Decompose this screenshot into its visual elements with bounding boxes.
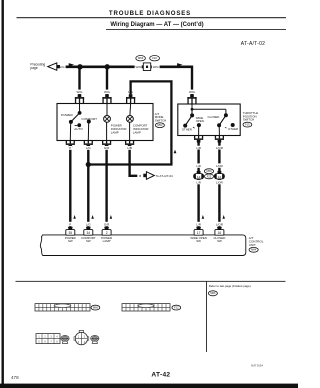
tps closed-side node	[224, 113, 228, 117]
svg-text:SWITCH: SWITCH	[243, 118, 254, 122]
next page arrow symbol	[143, 172, 154, 180]
terminal 16 CLOSED SW	[215, 227, 224, 235]
svg-text:OTHER: OTHER	[182, 128, 192, 132]
OTHER contact right	[225, 123, 235, 128]
tps closed-side feed	[225, 109, 227, 115]
terminal 34 COMFORT SW	[84, 227, 93, 235]
wire label G/R above strip	[102, 222, 111, 227]
flow arrow up wire 2	[91, 215, 94, 219]
wire COMFORT contact to pin	[87, 122, 89, 141]
label CLOSED	[208, 115, 220, 119]
wire comfort lamp to pin	[129, 122, 131, 140]
COMFORT contact	[87, 120, 91, 124]
A/T mode switch box	[57, 104, 153, 141]
footer separator rule	[16, 280, 286, 283]
terminal pin1 top of A/T mode switch	[75, 94, 84, 103]
junction node on L/G wire	[86, 162, 91, 167]
label POWER	[61, 113, 73, 117]
wire L/R to control unit	[197, 142, 199, 230]
label POWER SW	[65, 236, 76, 243]
label AUTO	[74, 127, 83, 131]
label COMFORT SW	[81, 236, 96, 243]
junction node B	[105, 64, 110, 69]
svg-text:B: B	[139, 174, 141, 178]
terminal 35 POWER SW	[66, 227, 75, 235]
svg-text:16: 16	[218, 231, 222, 235]
tps bridge tee node	[191, 108, 194, 111]
svg-text:G/R: G/R	[104, 222, 110, 226]
svg-text:OTHER: OTHER	[228, 127, 238, 131]
svg-text:G/R: G/R	[104, 146, 110, 150]
svg-text:MAT269A: MAT269A	[251, 363, 263, 367]
connector oval M64	[249, 247, 258, 252]
svg-text:W/G: W/G	[58, 65, 65, 69]
label POWER INDICATOR LAMP	[111, 124, 127, 135]
wire label L/OR above strip	[214, 222, 224, 227]
wire label W/G right of connector	[152, 65, 160, 69]
harness view icon 1	[61, 336, 69, 344]
svg-text:12: 12	[197, 175, 201, 179]
terminal pin6 bottom A/T mode switch	[102, 140, 111, 148]
svg-text:F22: F22	[152, 56, 157, 60]
wire label W/G tps pin	[188, 90, 197, 95]
terminal bottom tps wide open	[194, 135, 203, 143]
terminal top of throttle position switch	[187, 94, 196, 103]
connector face view F22	[122, 304, 170, 311]
wire label W/G pin2	[103, 90, 112, 95]
svg-text:M66: M66	[138, 56, 144, 60]
wire color label P	[69, 146, 72, 150]
inline connector ovals M66 F22	[136, 56, 160, 61]
wire W/G bus	[66, 66, 192, 69]
label OTHER left	[182, 128, 192, 132]
svg-text:SW: SW	[68, 239, 73, 243]
svg-text:SW: SW	[86, 239, 91, 243]
svg-text:UNIT: UNIT	[249, 243, 256, 247]
flow arrow on bus right	[177, 63, 183, 66]
inline connector on bus	[142, 63, 153, 71]
svg-text:W/G: W/G	[104, 90, 111, 94]
svg-text:L/G: L/G	[86, 146, 92, 150]
wire color label L/G	[84, 146, 92, 150]
svg-text:L/OR: L/OR	[216, 222, 224, 226]
inline connector 12	[193, 171, 204, 182]
svg-text:LAMP: LAMP	[133, 130, 141, 134]
label A/T MODE SWITCH	[155, 112, 166, 123]
svg-text:COMFORT: COMFORT	[81, 117, 97, 121]
svg-text:SWITCH: SWITCH	[155, 119, 166, 123]
svg-text:478: 478	[11, 375, 19, 380]
svg-text:L/OR: L/OR	[216, 146, 224, 150]
wire L/OR to control unit	[218, 142, 220, 230]
note connector oval M66	[208, 291, 217, 296]
tps common node wide-open side	[190, 113, 194, 117]
wire label W/G left of connector	[135, 65, 143, 69]
terminal 2 POWER LAMP	[102, 227, 111, 235]
svg-text:L/B: L/B	[127, 146, 132, 150]
svg-text:W/G: W/G	[136, 65, 143, 69]
page left margin bar	[2, 0, 4, 388]
svg-text:SW: SW	[196, 239, 201, 243]
switch common node	[78, 111, 82, 115]
svg-text:Wiring Diagram — AT — (Cont’d): Wiring Diagram — AT — (Cont’d)	[110, 22, 203, 28]
wire label L/R above strip	[194, 222, 203, 227]
svg-text:13: 13	[218, 175, 222, 179]
wire drop to A/T mode switch pin 1	[78, 67, 80, 95]
wire wide-open contact to pin	[198, 125, 200, 135]
wire label L/OR above connector	[214, 163, 224, 168]
OTHER contact left	[183, 124, 194, 129]
tps arm closed side	[219, 115, 226, 125]
svg-text:TROUBLE DIAGNOSES: TROUBLE DIAGNOSES	[109, 10, 191, 17]
wire loop feeding comfort lamp	[88, 81, 171, 164]
wire L/B to next page	[130, 147, 138, 176]
svg-text:AT-A/T-02: AT-A/T-02	[241, 41, 265, 47]
flow arrow up wire 1	[73, 215, 76, 219]
wire label W/G at feed	[58, 65, 65, 69]
wire G/R to control unit	[105, 147, 107, 230]
wire POWER contact to pin	[69, 122, 71, 141]
svg-text:P: P	[69, 222, 71, 226]
wire label P above strip	[68, 222, 73, 227]
svg-text:34: 34	[87, 231, 91, 235]
flow arrow up wire 5	[222, 215, 225, 219]
flow arrow up wire 3	[110, 215, 113, 219]
label COMFORT	[81, 117, 97, 121]
label POWER LAMP	[101, 236, 112, 243]
CLOSED contact	[217, 123, 221, 127]
label To AT-A/T-04	[156, 174, 173, 178]
note refer to last page	[209, 284, 252, 288]
tps arm wide-open side	[185, 115, 192, 125]
harness view icon 2	[91, 336, 99, 344]
power indicator lamp	[104, 116, 111, 123]
wire label L/G above strip	[84, 222, 93, 227]
wire power lamp to pin	[106, 122, 108, 140]
svg-text:OPEN: OPEN	[196, 119, 204, 123]
figure code MAT269A	[251, 363, 263, 367]
svg-text:2: 2	[106, 231, 108, 235]
terminal pin5 bottom A/T mode switch	[84, 140, 93, 148]
terminal bottom tps closed	[215, 135, 224, 143]
label CLOSED SW	[213, 236, 225, 243]
A/T control unit strip	[40, 235, 246, 256]
wire L/G to control unit	[87, 147, 89, 230]
header rule 1	[17, 17, 287, 18]
tps bridge wire	[192, 108, 226, 110]
wire color label L/B	[126, 146, 134, 150]
svg-text:L/G: L/G	[86, 222, 92, 226]
svg-text:L/OR: L/OR	[216, 164, 223, 168]
wire label L/OR below connector	[214, 180, 224, 185]
junction node A	[77, 64, 82, 69]
connector face oval label M66	[91, 305, 100, 310]
wire label L/G pin3	[126, 90, 135, 95]
svg-text:M52: M52	[157, 123, 163, 127]
svg-text:P: P	[69, 146, 71, 150]
switch arm to POWER	[71, 113, 80, 122]
svg-text:LAMP: LAMP	[103, 239, 111, 243]
terminal 17 WIDE OPEN SW	[194, 227, 203, 235]
svg-text:W/G: W/G	[189, 90, 196, 94]
connector oval M52	[155, 123, 164, 128]
POWER contact	[69, 120, 73, 124]
flow arrow up wire 4	[202, 215, 205, 219]
svg-text:L/R: L/R	[196, 180, 201, 184]
page bottom bar	[0, 384, 298, 388]
svg-text:AUTO: AUTO	[74, 127, 83, 131]
terminal pin2 top of A/T mode switch	[102, 94, 111, 103]
wire color label L/OR below tps	[215, 146, 225, 150]
label WIDE OPEN SW	[190, 236, 207, 243]
svg-text:M66: M66	[206, 169, 212, 173]
wire P to control unit	[69, 147, 71, 230]
terminal pin3 top of A/T mode switch	[126, 94, 135, 103]
wire color label B at arrow	[139, 174, 141, 178]
svg-text:L/R: L/R	[196, 164, 201, 168]
terminal pin7 bottom A/T mode switch	[125, 140, 134, 148]
flow arrow on bus left	[69, 63, 75, 66]
svg-text:17: 17	[197, 231, 201, 235]
svg-text:CLOSED: CLOSED	[208, 115, 220, 119]
switch common stub	[79, 104, 81, 113]
tps stub to bridge tee	[191, 104, 193, 115]
svg-text:F15: F15	[245, 123, 250, 127]
wire color label L/R below tps	[195, 146, 203, 150]
connector ovals M66 F22 mid	[204, 169, 213, 179]
svg-text:To AT-A/T-04: To AT-A/T-04	[156, 174, 173, 178]
wire color label G/R	[103, 146, 111, 150]
svg-text:Refer to last page (Foldout pa: Refer to last page (Foldout page).	[209, 284, 252, 288]
svg-text:M64: M64	[251, 248, 257, 252]
svg-text:SW: SW	[217, 239, 222, 243]
footer divider vertical	[205, 281, 208, 352]
connector oval F15	[243, 122, 252, 127]
svg-text:W/G: W/G	[77, 90, 84, 94]
svg-text:W/G: W/G	[153, 65, 160, 69]
label WIDE OPEN	[196, 116, 204, 123]
wire pin3 to comfort lamp	[129, 104, 132, 116]
svg-text:page: page	[30, 66, 38, 70]
AUTO contact	[75, 123, 82, 127]
WIDE OPEN contact	[197, 123, 201, 127]
svg-text:L/OR: L/OR	[216, 180, 223, 184]
comfort indicator lamp	[126, 116, 133, 123]
A/T mode switch connector face	[36, 334, 60, 344]
throttle position switch box	[178, 104, 240, 136]
page number 478	[11, 375, 19, 380]
preceding page note	[30, 63, 45, 71]
svg-text:35: 35	[69, 231, 73, 235]
label COMFORT INDICATOR LAMP	[133, 124, 149, 135]
wire pin2 to power lamp	[106, 104, 108, 116]
label THROTTLE POSITION SWITCH	[243, 111, 258, 122]
svg-text:F22: F22	[174, 306, 179, 310]
svg-text:AT-42: AT-42	[151, 372, 170, 379]
preceding page arrow symbol	[48, 63, 60, 70]
wire drop to throttle position switch	[191, 66, 193, 95]
svg-text:LAMP: LAMP	[111, 130, 119, 134]
connector face view M66	[35, 304, 90, 311]
wire closed contact to pin	[218, 125, 220, 135]
inline connector 13	[214, 171, 225, 182]
label A/T CONTROL UNIT	[249, 236, 264, 247]
header title TROUBLE DIAGNOSES	[109, 10, 191, 17]
throttle position switch connector face	[74, 331, 89, 345]
wire label W/G pin1	[75, 90, 84, 95]
svg-text:M66: M66	[93, 306, 99, 310]
label OTHER right	[228, 127, 238, 131]
svg-text:F22: F22	[207, 174, 212, 178]
connector face oval label F22	[172, 305, 181, 310]
svg-text:POWER: POWER	[61, 113, 73, 117]
page code AT-42	[151, 372, 170, 379]
header rule 2	[106, 28, 286, 31]
svg-text:M66: M66	[210, 291, 216, 295]
wire drop to A/T mode switch pin 2	[106, 67, 108, 95]
flow arrow up on loop wire	[174, 150, 177, 154]
wire label L/R above connector	[194, 163, 203, 168]
header subtitle Wiring Diagram AT Contd	[110, 22, 203, 28]
diagram code AT-A/T-02	[241, 41, 265, 47]
wire label L/R below connector	[194, 180, 203, 185]
terminal pin4 bottom A/T mode switch	[66, 140, 75, 148]
